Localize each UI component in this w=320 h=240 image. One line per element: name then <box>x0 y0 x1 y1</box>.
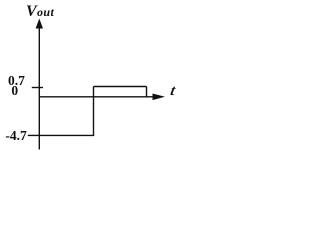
label Vout (y-axis title) <box>26 3 54 20</box>
waveform segment at 0.7 level <box>94 86 147 88</box>
svg-text:out: out <box>37 5 54 19</box>
y-axis (Vout axis) <box>38 26 40 150</box>
waveform segment at -4.7 level (leader from label through axis to step) <box>28 134 94 136</box>
waveform rising step vertical <box>93 87 95 136</box>
t-axis arrowhead <box>153 94 166 101</box>
svg-text:-4.7: -4.7 <box>5 128 27 143</box>
waveform falling edge back to 0 <box>146 87 148 97</box>
svg-text:0: 0 <box>11 83 18 98</box>
t-axis (time axis at 0 level) <box>39 96 154 98</box>
tick at 0.7 on y-axis <box>32 87 43 89</box>
y-axis arrowhead <box>36 19 43 29</box>
